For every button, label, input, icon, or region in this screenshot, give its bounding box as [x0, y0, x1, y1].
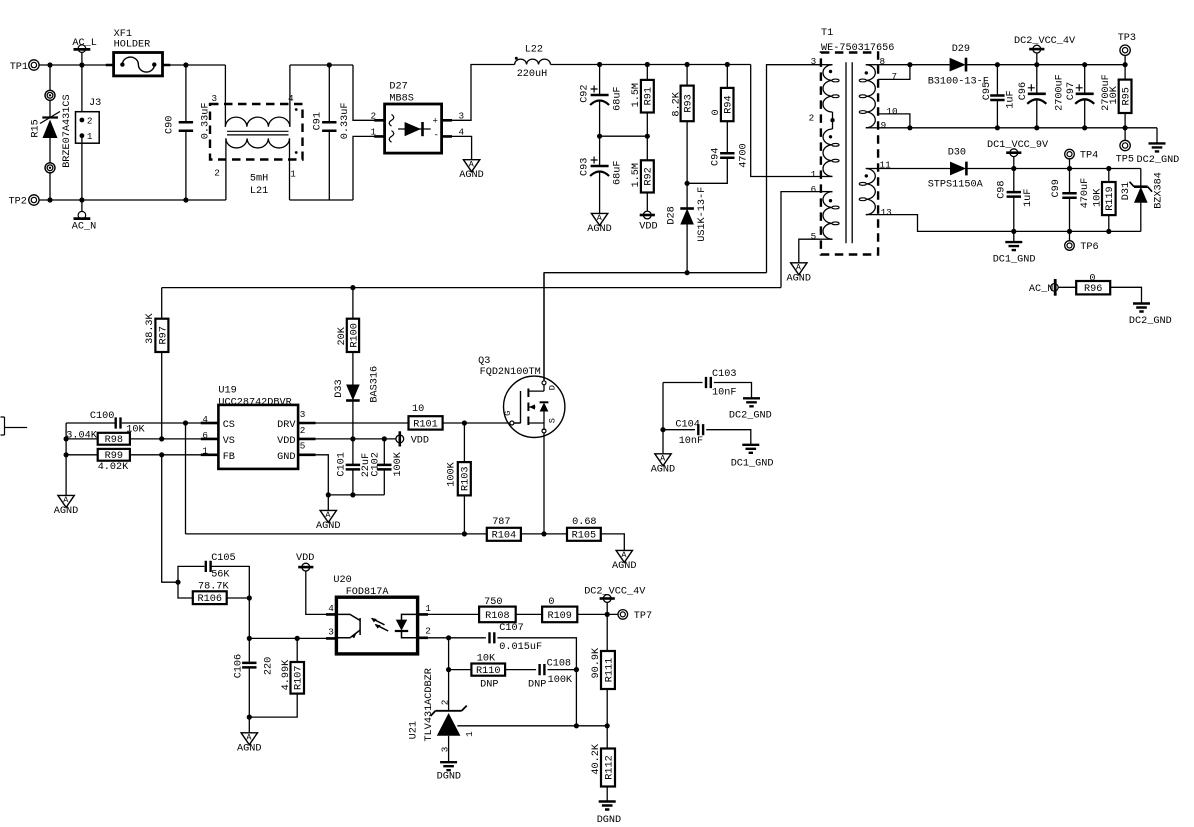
svg-text:DC1_GND: DC1_GND — [993, 255, 1036, 266]
svg-text:0.015uF: 0.015uF — [499, 642, 542, 653]
wire fuse to L21 pin3 — [163, 64, 226, 66]
test point TP5 — [1124, 128, 1126, 141]
svg-text:1: 1 — [811, 169, 817, 180]
svg-text:AGND: AGND — [587, 224, 611, 235]
svg-text:L22: L22 — [525, 45, 543, 56]
wire R96 to DC2_GND — [1110, 287, 1141, 303]
svg-text:R96: R96 — [1084, 284, 1102, 295]
svg-text:R15: R15 — [30, 119, 41, 137]
svg-text:R119: R119 — [1105, 186, 1116, 210]
svg-text:AGND: AGND — [316, 521, 340, 532]
wire U20 pin2 to C107 — [418, 637, 486, 639]
wire pins7-8 jumper — [878, 65, 910, 80]
svg-text:2: 2 — [87, 115, 93, 126]
wire CS drop — [185, 423, 187, 534]
svg-text:10K: 10K — [477, 654, 496, 665]
svg-text:T1: T1 — [821, 28, 833, 39]
svg-text:787: 787 — [492, 517, 510, 528]
svg-text:3: 3 — [811, 56, 817, 67]
svg-text:XF1: XF1 — [114, 29, 132, 40]
wire pin3 line — [249, 637, 336, 639]
svg-text:R95: R95 — [1122, 87, 1133, 105]
svg-text:2: 2 — [439, 700, 450, 706]
svg-text:2: 2 — [809, 113, 815, 124]
wire DRV to R101 — [298, 422, 408, 424]
svg-text:-: - — [434, 131, 439, 141]
svg-text:AGND: AGND — [54, 506, 78, 517]
wire L21 pin4 to D27 — [290, 64, 353, 66]
svg-text:5: 5 — [811, 231, 817, 242]
svg-text:VDD: VDD — [277, 436, 295, 447]
svg-text:C99: C99 — [1051, 179, 1062, 197]
ground DC1_GND at C98 — [1013, 231, 1015, 242]
svg-text:20K: 20K — [337, 326, 348, 345]
svg-text:1.5M: 1.5M — [631, 163, 642, 187]
svg-text:TP7: TP7 — [634, 611, 652, 622]
svg-text:R97: R97 — [158, 326, 169, 344]
resistor R91 1.5M — [646, 65, 648, 80]
wire T1 pin5 to AGND — [799, 239, 821, 263]
ground DGND at R112 — [599, 802, 616, 810]
svg-text:TP2: TP2 — [9, 197, 27, 208]
wire FB compensation — [162, 455, 178, 582]
svg-text:TP4: TP4 — [1080, 151, 1098, 162]
svg-text:9: 9 — [881, 120, 887, 131]
wire secondary2 return — [878, 215, 1141, 232]
resistor R112 40.2K — [606, 726, 608, 749]
wire U21 anode to DGND — [448, 736, 450, 762]
varistor R15 BRZE07A431CS — [49, 65, 51, 90]
svg-text:4.02K: 4.02K — [98, 462, 129, 473]
svg-text:220: 220 — [263, 657, 274, 675]
svg-text:R104: R104 — [492, 531, 516, 542]
resistor R98 3.04K — [66, 438, 98, 440]
svg-text:C97: C97 — [1066, 82, 1077, 100]
svg-text:C90: C90 — [165, 116, 176, 134]
resistor R97 38.3K — [161, 288, 163, 319]
wire bottom rail left — [39, 199, 226, 201]
T1 primary winding pins 2-1 — [832, 120, 834, 129]
svg-text:DNP: DNP — [480, 679, 498, 690]
resistor R105 0.68 — [567, 528, 601, 541]
svg-text:BAS316: BAS316 — [369, 366, 380, 403]
ground AGND at C106 — [248, 717, 250, 733]
svg-text:R108: R108 — [485, 611, 509, 622]
svg-text:R93: R93 — [684, 94, 695, 112]
svg-text:56K: 56K — [211, 569, 230, 580]
svg-text:2: 2 — [425, 625, 431, 636]
svg-text:1uF: 1uF — [1023, 189, 1034, 207]
capacitor C99 470uF — [1069, 169, 1071, 194]
resistor R110 10K DNP — [471, 664, 505, 676]
svg-text:C93: C93 — [579, 158, 590, 176]
test point TP6 — [1069, 231, 1071, 240]
resistor R111 90.9K — [606, 614, 608, 651]
svg-text:C98: C98 — [996, 180, 1007, 198]
svg-text:470uF: 470uF — [1080, 178, 1091, 209]
svg-text:DRV: DRV — [277, 420, 296, 431]
capacitor C96 2700uF — [1036, 65, 1038, 93]
svg-text:4.99K: 4.99K — [281, 659, 292, 690]
svg-text:1: 1 — [464, 731, 475, 737]
ground AGND at T1 pin5 — [791, 263, 807, 275]
svg-text:10nF: 10nF — [679, 436, 703, 447]
test point TP7 — [618, 610, 628, 620]
wire secondary1 return — [878, 127, 1157, 129]
wire U21 ref line — [457, 725, 607, 727]
svg-text:100K: 100K — [393, 451, 404, 476]
svg-text:0.33uF: 0.33uF — [340, 103, 351, 140]
svg-text:6: 6 — [811, 184, 817, 195]
svg-text:5: 5 — [300, 441, 306, 452]
svg-text:DC2_VCC_4V: DC2_VCC_4V — [584, 586, 646, 597]
svg-text:C91: C91 — [313, 112, 324, 130]
svg-text:3.04K: 3.04K — [66, 431, 97, 442]
svg-text:0: 0 — [711, 109, 722, 115]
svg-text:R98: R98 — [105, 435, 123, 446]
capacitor C92 68uF — [599, 65, 601, 95]
svg-text:D27: D27 — [389, 82, 407, 93]
ground AGND at C93 — [591, 213, 607, 225]
power VDD at U19 — [396, 435, 404, 443]
svg-text:C104: C104 — [675, 419, 699, 430]
T1 aux winding pins 6-5 — [821, 191, 833, 193]
svg-text:VS: VS — [223, 436, 235, 447]
svg-text:100K: 100K — [548, 675, 573, 686]
svg-text:1: 1 — [87, 131, 93, 142]
wire aux winding line — [162, 287, 781, 289]
svg-text:10K: 10K — [1109, 85, 1120, 104]
svg-text:TLV431ACDBZR: TLV431ACDBZR — [424, 668, 435, 741]
T1 secondary winding pins 11-13 — [866, 168, 878, 170]
svg-text:FB: FB — [223, 452, 235, 463]
svg-text:TP3: TP3 — [1118, 33, 1136, 44]
capacitor C91 0.33uF — [328, 65, 330, 122]
net port AC_N — [81, 200, 83, 212]
power VDD below R92 — [643, 211, 651, 219]
svg-text:R103: R103 — [461, 467, 472, 491]
svg-text:D31: D31 — [1121, 182, 1132, 200]
capacitor C95 1uF — [996, 65, 998, 96]
svg-text:TP5: TP5 — [1116, 155, 1134, 166]
wire bulk rail — [551, 64, 751, 66]
svg-text:DC2_GND: DC2_GND — [1129, 316, 1172, 327]
svg-text:S: S — [547, 418, 557, 423]
svg-text:C106: C106 — [233, 654, 244, 678]
svg-text:R111: R111 — [604, 658, 615, 682]
IC pin stubs — [201, 423, 316, 455]
capacitor C97 2700uF — [1084, 65, 1086, 93]
svg-text:3: 3 — [328, 627, 334, 638]
capacitor C98 1uF — [1013, 169, 1015, 193]
svg-text:VDD: VDD — [639, 221, 657, 232]
svg-text:U21: U21 — [409, 721, 420, 739]
svg-text:DGND: DGND — [597, 815, 621, 826]
svg-text:2: 2 — [300, 425, 306, 436]
resistor R119 10K — [1108, 169, 1110, 183]
wire 9V rail — [966, 168, 1140, 170]
svg-text:R105: R105 — [572, 531, 596, 542]
wire to opto/C106 — [248, 598, 250, 638]
svg-text:AGND: AGND — [787, 273, 811, 284]
svg-text:TP1: TP1 — [10, 62, 28, 73]
svg-text:D28: D28 — [667, 206, 678, 224]
svg-text:R101: R101 — [413, 419, 437, 430]
svg-text:C102: C102 — [370, 452, 381, 476]
svg-text:AC_L: AC_L — [72, 38, 96, 49]
svg-text:40.2K: 40.2K — [591, 743, 602, 774]
svg-text:R99: R99 — [105, 451, 123, 462]
capacitor C106 220 — [248, 638, 250, 663]
ground AGND left — [58, 495, 74, 507]
svg-text:7: 7 — [892, 71, 898, 82]
wire rail to T1 pin1 — [751, 65, 821, 177]
svg-text:C107: C107 — [499, 623, 523, 634]
capacitor C90 0.33uF — [185, 65, 187, 122]
wire U19 GND to AGND — [298, 455, 328, 511]
svg-text:5mH: 5mH — [250, 174, 268, 185]
svg-text:68uF: 68uF — [613, 161, 624, 185]
T1 secondary winding pins 8-9 — [866, 64, 878, 66]
wire 4V rail — [966, 64, 1125, 66]
svg-text:C100: C100 — [90, 411, 114, 422]
svg-text:D: D — [547, 385, 557, 390]
capacitor C93 68uF — [599, 136, 601, 165]
svg-text:HOLDER: HOLDER — [114, 40, 151, 51]
test point TP2 — [29, 195, 39, 205]
svg-text:L21: L21 — [250, 186, 268, 197]
svg-text:C108: C108 — [547, 658, 571, 669]
resistor R95 10K — [1124, 65, 1126, 80]
svg-text:750: 750 — [484, 597, 502, 608]
ground AGND at C104 — [662, 430, 664, 454]
left AGND vertical — [65, 423, 67, 495]
ground AGND at R105 — [616, 550, 632, 562]
resistor R93 8.2K — [686, 65, 688, 86]
ground AGND at U19 — [320, 510, 336, 522]
svg-text:C101: C101 — [337, 452, 348, 476]
svg-text:4: 4 — [288, 93, 294, 104]
svg-text:US1K-13-F: US1K-13-F — [697, 187, 708, 242]
sheet port left — [1, 417, 5, 435]
svg-text:B3100-13-F: B3100-13-F — [928, 76, 989, 87]
svg-text:AGND: AGND — [651, 464, 675, 475]
resistor R100 20K — [352, 288, 354, 319]
ground DC2_GND at 4V rail — [1156, 128, 1158, 144]
wire drain to clamp line — [543, 273, 545, 381]
svg-text:8.2K: 8.2K — [671, 91, 682, 116]
svg-text:STPS1150A: STPS1150A — [928, 179, 984, 190]
resistor R108 750 — [479, 607, 516, 623]
wire CS sense row — [186, 533, 487, 535]
capacitor C94 4700 — [720, 153, 734, 158]
svg-text:J3: J3 — [89, 98, 101, 109]
ground DGND at U21 — [440, 762, 457, 770]
svg-text:D30: D30 — [948, 147, 966, 158]
svg-text:WE-750317656: WE-750317656 — [821, 43, 894, 54]
test point TP1 — [29, 60, 39, 70]
svg-text:1.5M: 1.5M — [631, 83, 642, 107]
svg-text:Q3: Q3 — [478, 356, 490, 367]
svg-text:2700uF: 2700uF — [1054, 74, 1065, 111]
svg-text:VDD: VDD — [296, 553, 314, 564]
svg-text:220uH: 220uH — [517, 69, 548, 80]
T1 primary winding pins 3-2 — [821, 64, 833, 66]
wire VDD line — [298, 438, 396, 440]
svg-text:2: 2 — [214, 167, 220, 178]
svg-text:R91: R91 — [644, 87, 655, 105]
wire pins9-10 jumper — [878, 114, 910, 128]
svg-text:D33: D33 — [334, 379, 345, 397]
wire D27 pin3 up to L22 — [442, 65, 515, 121]
svg-text:0.68: 0.68 — [572, 517, 596, 528]
resistor R104 787 — [487, 528, 521, 541]
diode D28 US1K-13-F clamp — [686, 183, 688, 208]
svg-text:D29: D29 — [952, 44, 970, 55]
diode D33 BAS316 — [346, 385, 360, 401]
wire CS net — [201, 422, 219, 424]
test point TP4 — [1065, 149, 1075, 159]
svg-text:0: 0 — [1089, 273, 1095, 284]
common-mode choke L21 5mH — [210, 104, 303, 160]
svg-text:DNP: DNP — [528, 679, 546, 690]
zener D31 BZX384 — [1140, 169, 1142, 187]
svg-text:R100: R100 — [349, 323, 360, 347]
svg-text:AGND: AGND — [237, 743, 261, 754]
ground AGND at D27 — [463, 160, 479, 172]
svg-text:G: G — [503, 411, 513, 416]
svg-text:AC_N: AC_N — [1029, 284, 1053, 295]
svg-text:C105: C105 — [211, 553, 235, 564]
ground DC2_GND at R96 — [1133, 304, 1150, 312]
svg-text:U19: U19 — [218, 385, 236, 396]
svg-text:10K: 10K — [1092, 188, 1103, 207]
svg-text:DGND: DGND — [437, 772, 461, 783]
svg-text:3: 3 — [300, 409, 306, 420]
wire D27 pin4 to AGND — [442, 136, 472, 159]
capacitor C101 22uF — [352, 439, 354, 465]
svg-text:1: 1 — [425, 603, 431, 614]
svg-text:90.9K: 90.9K — [591, 647, 602, 678]
capacitor C102 100K — [383, 439, 385, 465]
svg-text:TP6: TP6 — [1080, 242, 1098, 253]
svg-text:BZX384: BZX384 — [1153, 172, 1164, 209]
wire T1 pin8 to D29 — [878, 64, 950, 66]
svg-text:R110: R110 — [476, 666, 500, 677]
connector J3 — [81, 65, 83, 120]
svg-text:38.3K: 38.3K — [145, 312, 156, 343]
svg-text:R94: R94 — [724, 95, 735, 113]
svg-text:GND: GND — [277, 452, 295, 463]
wire drain/clamp line to T1 pin3 — [544, 272, 767, 274]
svg-text:C95: C95 — [982, 82, 993, 100]
svg-text:100K: 100K — [446, 461, 457, 486]
resistor R94 0 — [726, 65, 728, 88]
svg-text:10nF: 10nF — [712, 388, 736, 399]
svg-text:10: 10 — [412, 404, 424, 415]
svg-text:R109: R109 — [547, 611, 571, 622]
wire C92/R91 midpoint — [600, 135, 648, 137]
svg-text:4700: 4700 — [738, 143, 749, 167]
resistor R96 0 — [1076, 281, 1110, 294]
svg-text:CS: CS — [223, 420, 235, 431]
svg-text:C94: C94 — [711, 148, 722, 166]
svg-text:R106: R106 — [198, 594, 222, 605]
svg-text:1: 1 — [290, 168, 296, 179]
wire U20 pin1 to R108 — [418, 613, 480, 615]
resistor R109 0 — [542, 607, 577, 623]
svg-text:68uF: 68uF — [613, 86, 624, 110]
svg-text:U20: U20 — [333, 575, 351, 586]
svg-text:AGND: AGND — [612, 561, 636, 572]
wire R101 to gate — [443, 422, 510, 424]
svg-text:DC2_GND: DC2_GND — [1137, 155, 1180, 166]
wire TP1 to fuse — [39, 64, 114, 66]
svg-text:R92: R92 — [644, 167, 655, 185]
svg-text:10: 10 — [886, 106, 897, 117]
svg-text:DC2_VCC_4V: DC2_VCC_4V — [1014, 36, 1076, 47]
svg-text:3: 3 — [212, 93, 218, 104]
svg-text:DC1_VCC_9V: DC1_VCC_9V — [987, 140, 1049, 151]
svg-text:0: 0 — [548, 597, 554, 608]
resistor R101 10 — [409, 416, 443, 429]
svg-text:R112: R112 — [604, 755, 615, 779]
wire T1 pin11 to D30 — [878, 168, 950, 170]
svg-text:BRZE07A431CS: BRZE07A431CS — [62, 94, 73, 167]
svg-text:R107: R107 — [294, 666, 305, 690]
svg-text:DC2_GND: DC2_GND — [729, 411, 772, 422]
resistor R92 1.5M — [646, 136, 648, 160]
wire opto to R110/U21 — [448, 638, 450, 670]
wire L21 pin1 to D27 — [290, 199, 354, 201]
svg-text:13: 13 — [881, 207, 892, 218]
svg-text:AGND: AGND — [459, 170, 483, 181]
svg-text:+: + — [433, 117, 438, 127]
svg-text:1uF: 1uF — [1005, 90, 1016, 108]
svg-text:AC_N: AC_N — [72, 221, 96, 232]
svg-text:DC1_GND: DC1_GND — [731, 459, 774, 470]
svg-text:C96: C96 — [1018, 82, 1029, 100]
resistor R99 4.02K — [66, 454, 98, 456]
resistor R107 4.99K — [296, 638, 298, 662]
resistor R103 100K — [463, 423, 465, 462]
ground DC1_GND at C104 — [742, 445, 759, 453]
svg-text:VDD: VDD — [411, 436, 429, 447]
svg-text:C103: C103 — [712, 369, 736, 380]
svg-text:C92: C92 — [579, 84, 590, 102]
ground DC2_GND at C103 — [743, 398, 760, 406]
svg-text:4: 4 — [328, 603, 334, 614]
